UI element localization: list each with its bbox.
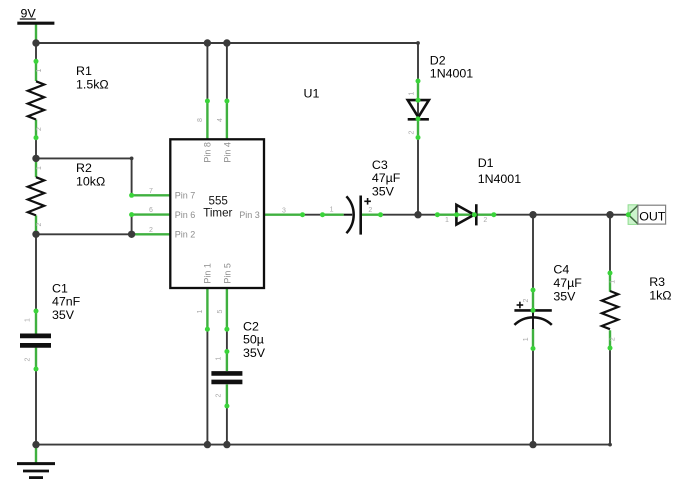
svg-text:R2: R2 — [76, 161, 92, 175]
svg-text:2: 2 — [610, 337, 617, 341]
svg-text:Pin 5: Pin 5 — [223, 263, 233, 284]
svg-text:R1: R1 — [76, 64, 92, 78]
svg-text:4: 4 — [217, 118, 224, 122]
svg-text:Pin 8: Pin 8 — [203, 142, 213, 163]
svg-text:50µ: 50µ — [243, 333, 264, 347]
svg-text:2: 2 — [149, 227, 153, 234]
svg-text:47µF: 47µF — [553, 276, 582, 290]
svg-text:D1: D1 — [478, 156, 494, 170]
svg-text:1: 1 — [445, 217, 449, 224]
svg-text:1: 1 — [330, 207, 334, 214]
svg-text:1: 1 — [36, 166, 43, 170]
svg-text:1N4001: 1N4001 — [430, 66, 474, 80]
svg-text:C2: C2 — [243, 319, 259, 333]
svg-text:35V: 35V — [52, 308, 75, 322]
svg-text:2: 2 — [36, 222, 43, 226]
svg-text:Pin 6: Pin 6 — [175, 210, 196, 220]
svg-text:1N4001: 1N4001 — [478, 172, 522, 186]
svg-text:1.5kΩ: 1.5kΩ — [76, 78, 109, 92]
svg-text:2: 2 — [216, 394, 223, 398]
svg-text:Timer: Timer — [203, 206, 232, 219]
svg-text:Pin 7: Pin 7 — [175, 191, 196, 201]
svg-text:Pin 4: Pin 4 — [223, 142, 233, 163]
svg-text:Pin 1: Pin 1 — [203, 263, 213, 284]
svg-text:1: 1 — [523, 337, 530, 341]
svg-text:1kΩ: 1kΩ — [649, 289, 671, 303]
svg-text:1: 1 — [36, 68, 43, 72]
svg-text:35V: 35V — [553, 289, 576, 303]
svg-text:47nF: 47nF — [52, 295, 81, 309]
svg-text:2: 2 — [408, 130, 415, 134]
svg-text:35V: 35V — [243, 346, 266, 360]
svg-text:Pin 2: Pin 2 — [175, 230, 196, 240]
svg-text:2: 2 — [483, 217, 487, 224]
svg-text:C4: C4 — [553, 262, 569, 276]
svg-text:C3: C3 — [372, 158, 388, 172]
svg-text:8: 8 — [197, 118, 204, 122]
svg-text:35V: 35V — [372, 184, 395, 198]
svg-text:5: 5 — [217, 309, 224, 313]
svg-text:3: 3 — [282, 207, 286, 214]
svg-text:Pin 3: Pin 3 — [239, 210, 260, 220]
svg-text:1: 1 — [610, 280, 617, 284]
svg-text:R3: R3 — [649, 275, 665, 289]
svg-text:1: 1 — [24, 318, 31, 322]
svg-text:2: 2 — [24, 358, 31, 362]
svg-text:9V: 9V — [21, 7, 37, 21]
svg-text:1: 1 — [216, 357, 223, 361]
svg-text:10kΩ: 10kΩ — [76, 175, 105, 189]
svg-text:2: 2 — [36, 127, 43, 131]
svg-text:1: 1 — [408, 91, 415, 95]
svg-text:7: 7 — [149, 188, 153, 195]
svg-text:U1: U1 — [304, 86, 320, 100]
svg-text:C1: C1 — [52, 282, 68, 296]
svg-text:2: 2 — [523, 298, 530, 302]
svg-text:OUT: OUT — [639, 209, 666, 223]
svg-text:6: 6 — [149, 207, 153, 214]
svg-text:47µF: 47µF — [372, 171, 401, 185]
svg-text:2: 2 — [368, 207, 372, 214]
svg-text:D2: D2 — [430, 53, 446, 67]
svg-text:1: 1 — [197, 309, 204, 313]
